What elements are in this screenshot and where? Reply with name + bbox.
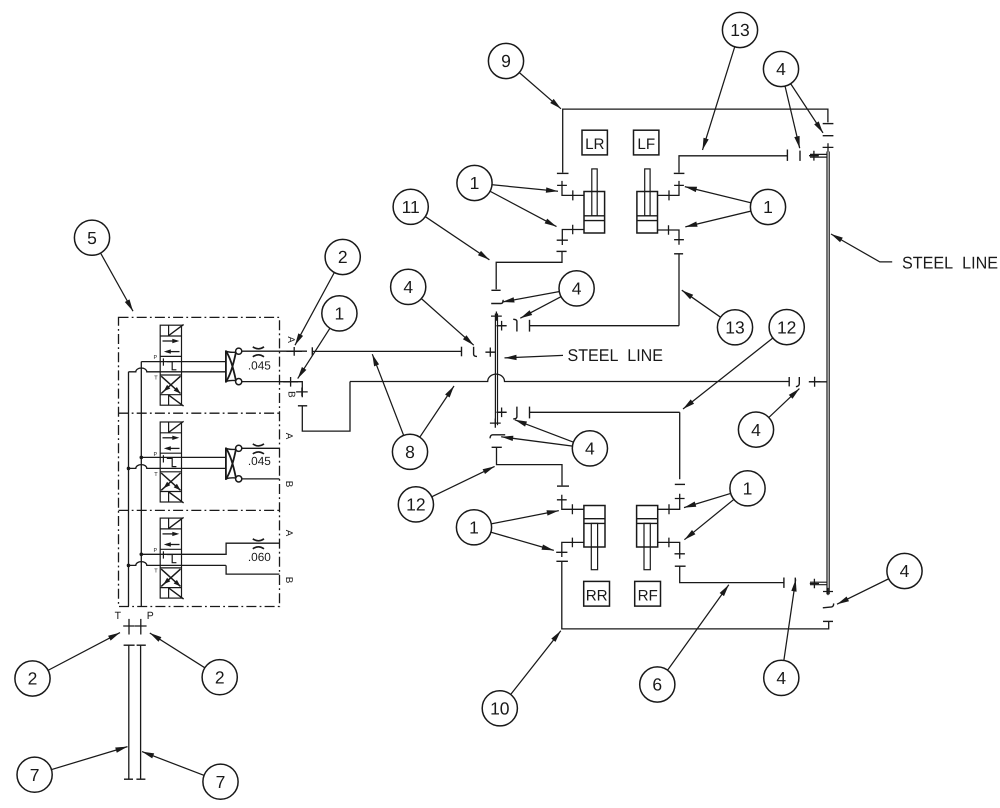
svg-text:4: 4 (751, 420, 761, 440)
coupler half on A1 line (item 4) (474, 347, 477, 357)
balloon 2 (P stub) (202, 660, 237, 695)
balloon 12 (RR tube elbow) (398, 487, 433, 522)
leader 2 (A1 fitting) (295, 257, 343, 345)
svg-text:4: 4 (776, 668, 786, 688)
svg-text:T: T (154, 568, 158, 574)
coupler cap bottom right (item 4) (823, 620, 833, 622)
leader 1 right of RF (684, 488, 748, 507)
fitting right steel line mid (809, 377, 821, 387)
svg-text:7: 7 (30, 765, 40, 785)
leader 5 (valve block) (92, 238, 133, 312)
leader 12 (RF hose corner) (683, 327, 787, 409)
sleeve into right steel line top (810, 153, 827, 155)
fitting bottom of right steel line (823, 588, 833, 595)
leader 4 centre bottom couplers (501, 437, 590, 449)
svg-text:A: A (285, 336, 296, 343)
RR bottom port coupling (item 1) (562, 542, 584, 557)
P bus vertical (140, 362, 142, 607)
junction P section 2 (140, 456, 144, 460)
label box RR (584, 581, 610, 606)
leader 8 (steel lines) (372, 354, 410, 452)
end bar RF-bottom hose (783, 578, 785, 588)
hose LF top to right steel line (item 13) (679, 156, 787, 173)
svg-text:4: 4 (900, 561, 910, 581)
coupler cap below centre line (item 4) (492, 446, 502, 448)
leader 12 (RR tube elbow) (416, 466, 495, 504)
coupler cap LF bottom (item 4) (674, 253, 683, 255)
label box LF (634, 130, 659, 155)
fitting on A1 port (item 2) (286, 347, 302, 356)
svg-text:12: 12 (777, 317, 796, 337)
svg-text:.045: .045 (248, 358, 271, 372)
centre steel line (double) (494, 314, 496, 426)
end bar A1 line (461, 347, 463, 357)
svg-text:2: 2 (338, 247, 348, 267)
svg-text:2: 2 (28, 669, 38, 689)
section 3 T line with hop over P bus (129, 562, 226, 566)
hose 7 left (T) (124, 644, 135, 646)
svg-text:RR: RR (586, 587, 608, 604)
svg-text:4: 4 (585, 439, 595, 459)
leader 13 bottom (LF hose) (682, 290, 735, 327)
cylinder RR (584, 506, 605, 570)
svg-text:13: 13 (730, 20, 749, 40)
section 1 A line (242, 350, 280, 352)
end bar main line at right steel line (788, 377, 790, 386)
leader 13 top (703, 30, 741, 150)
balloon 4 top right (763, 51, 798, 86)
valve block section separator 2 (119, 509, 280, 511)
LF bottom port coupling (item 1) (658, 230, 680, 245)
T port stub fitting (128, 619, 130, 635)
leader 7 left (35, 747, 128, 775)
coupler cap left rail drop (item 4) (557, 172, 569, 174)
orifice .060 section 3 (253, 539, 264, 541)
leader 1 right of LF (685, 207, 768, 227)
coupler cap RR bottom (item 4) (556, 560, 568, 562)
coupler half (item 4) on main line right (796, 377, 799, 387)
leader 1 left of LR (475, 183, 557, 227)
svg-text:B: B (283, 481, 294, 488)
coupler pair right of centre line bottom (item 4) (513, 407, 517, 419)
leader 4 (main line coupler) (756, 389, 799, 430)
open coupler half lower right (item 4) (823, 603, 834, 607)
junction T section 3 (127, 564, 131, 568)
svg-text:RF: RF (638, 587, 658, 604)
balloon 4 (open coupler lower) (887, 553, 922, 588)
hose RF top vertical (item 12) (679, 412, 681, 479)
balloon 4 centre top couplers (559, 271, 594, 306)
leader 4 (open coupler lower) (837, 571, 905, 604)
tick on A1 steel line (311, 347, 313, 355)
hose 7 right (P) (137, 644, 146, 646)
steel tube LR bottom to centre (item 11) (496, 252, 562, 290)
orifice .045 section 2 (253, 444, 264, 446)
svg-text:4: 4 (572, 279, 582, 299)
svg-text:13: 13 (725, 318, 744, 338)
section 3 P line (141, 553, 226, 555)
fitting right steel line top (809, 151, 819, 161)
fitting right steel line bottom (810, 579, 819, 589)
hose LF bottom down to centre coupler (item 13) (678, 254, 680, 326)
coupler cap on B1 (item 4) (298, 405, 307, 407)
svg-text:.060: .060 (248, 550, 271, 564)
leader 1 (B1 fitting) (298, 313, 340, 378)
hose RF bottom east (item 6) (680, 566, 784, 582)
coupler half bar lower right (item 4) (794, 578, 796, 588)
svg-text:10: 10 (490, 699, 510, 719)
LF top port coupling (item 1) (658, 181, 680, 196)
svg-text:8: 8 (405, 442, 415, 462)
right steel line (double) (826, 152, 828, 595)
svg-text:1: 1 (743, 479, 753, 499)
B1 port elbow (280, 382, 303, 398)
T bus vertical (128, 372, 130, 607)
svg-text:1: 1 (469, 518, 479, 538)
svg-text:6: 6 (652, 675, 662, 695)
svg-text:LR: LR (585, 136, 604, 153)
fitting on B1 elbow (296, 388, 308, 397)
coupler pair right of centre line top (item 4) (513, 319, 517, 331)
svg-text:1: 1 (763, 197, 773, 217)
svg-text:11: 11 (402, 197, 420, 217)
coupler cap RF top (item 4) (675, 483, 685, 485)
RR top port coupling (item 1) (562, 495, 584, 510)
leader 1 left of RR (474, 511, 559, 528)
svg-text:STEEL LINE: STEEL LINE (902, 254, 998, 273)
svg-text:1: 1 (335, 304, 345, 324)
svg-text:T: T (115, 610, 122, 622)
leader 4 (lower coupler bar) (781, 579, 795, 678)
fitting top of centre steel line (491, 312, 502, 321)
valve spool section 3 (160, 517, 183, 599)
LR top port coupling (item 1) (562, 181, 584, 196)
RF top port coupling (item 1) (658, 494, 680, 510)
leader 4 centre bottom couplers (515, 420, 590, 449)
leader 4 top right (781, 69, 823, 133)
fitting bottom of centre steel line (490, 419, 501, 428)
leader 1 left of RR (474, 527, 554, 550)
steel line item 8 (A1 to center) (312, 350, 461, 352)
fitting into centre steel line left (item 1) (485, 348, 495, 357)
fitting on B1 port (item 1) (283, 377, 298, 387)
svg-text:5: 5 (87, 228, 97, 248)
leader 4 centre top couplers (520, 288, 576, 318)
svg-text:.045: .045 (248, 454, 271, 468)
coupler cap RR top (item 4) (557, 485, 569, 487)
B1 hose to main steel line (302, 382, 350, 432)
P port stub fitting (140, 619, 142, 635)
section 1 check valve crossover (225, 350, 227, 382)
svg-text:T: T (154, 375, 158, 381)
svg-text:B: B (283, 577, 294, 584)
section 2 check valve crossover (225, 448, 227, 480)
end bar LF-top hose (786, 150, 788, 161)
label box LR (582, 130, 607, 155)
coupler cap above centre line (item 4) (491, 289, 500, 291)
junction T section 2 (127, 467, 131, 471)
fitting centre line to LF-bottom hose (497, 321, 507, 331)
leader 4 (A1 coupler) (408, 287, 474, 345)
section 3 B line with step down (226, 565, 279, 574)
svg-text:A: A (283, 433, 294, 440)
balloon 1 left of LR (457, 165, 492, 200)
section 1 T line with hop over P bus (129, 368, 226, 372)
leader 7 right (142, 752, 221, 782)
RF bottom port coupling (item 1) (658, 542, 680, 558)
leader 4 top right (781, 69, 800, 148)
fitting centre line to RF-top hose (497, 408, 507, 418)
leader 1 right of LF (685, 187, 768, 207)
balloon 13 top (722, 12, 757, 47)
leader 8 (steel lines) (410, 386, 454, 452)
svg-text:4: 4 (776, 59, 786, 79)
steel tube centre to RR top (item 12) (497, 448, 563, 486)
section 2 P line (141, 456, 226, 458)
section 2 B line (242, 478, 280, 480)
svg-text:12: 12 (406, 495, 425, 515)
leader 4 centre top couplers (502, 288, 576, 302)
balloon 12 (RF hose corner) (769, 310, 804, 345)
svg-text:T: T (154, 472, 158, 478)
section 1 P line (141, 361, 226, 363)
leader 11 (411, 207, 490, 260)
balloon 1 right of RF (730, 471, 765, 506)
top rail hose (item 9) (563, 109, 828, 173)
A1 stub (280, 350, 308, 352)
svg-text:7: 7 (216, 772, 226, 792)
balloon 4 (lower coupler bar) (764, 660, 799, 695)
cylinder LF (637, 169, 658, 233)
section 3 A line with step and orifice (226, 543, 280, 554)
balloon 7 left (17, 757, 52, 792)
balloon 1 left of RR (456, 510, 491, 545)
leader 2 (P stub) (150, 633, 220, 677)
balloon 10 (bottom rail hose) (482, 691, 517, 726)
section 2 T line with hop over P bus (129, 465, 226, 469)
coupler cap right rail drop (item 4) (823, 123, 834, 125)
cylinder LR (584, 169, 605, 233)
junction P section 3 (140, 553, 144, 557)
balloon 1 (B1 fitting) (322, 296, 357, 331)
leader 1 right of RF (684, 488, 747, 539)
hose RR bottom to bottom rail (item 10) (562, 562, 829, 629)
balloon 5 (valve block) (74, 220, 109, 255)
coupler cap RF bottom (item 4) (675, 565, 686, 567)
leader 2 (T stub) (33, 633, 121, 679)
orifice .045 section 1 (253, 347, 264, 349)
balloon 7 right (203, 764, 238, 799)
coupler cap on right steel line top (item 4) (823, 135, 834, 137)
balloon 4 (main line coupler) (738, 412, 773, 447)
label box RF (635, 581, 661, 606)
coupler cap LR bottom (item 4) (557, 250, 567, 252)
svg-text:P: P (154, 548, 158, 554)
svg-text:4: 4 (403, 277, 413, 297)
balloon 4 (A1 coupler) (391, 269, 426, 304)
balloon 4 centre bottom couplers (572, 431, 607, 466)
balloon 9 (top rail hose) (488, 43, 523, 78)
section 2 A line (242, 447, 280, 449)
balloon 6 (RF bottom hose) (640, 667, 675, 702)
main steel line (item 8) B1 east run with hop over centre line (350, 374, 789, 381)
cylinder RF (637, 506, 658, 570)
svg-text:1: 1 (470, 173, 480, 193)
valve spool section 1 (160, 325, 183, 407)
open coupler half below centre line (item 4) (490, 435, 505, 439)
sleeve into right steel line bottom (810, 581, 827, 583)
leader 1 left of LR (475, 183, 559, 191)
hose RF top horizontal (item 12) (530, 411, 680, 413)
leader 9 (top rail hose) (506, 61, 561, 109)
svg-text:P: P (154, 355, 158, 361)
open coupler half above centre line (item 4) (491, 300, 503, 304)
balloon 11 (393, 189, 428, 224)
LR bottom port coupling (item 1) (562, 230, 584, 246)
leader 6 (RF bottom hose) (657, 585, 729, 685)
coupler cap LF top (item 4) (674, 172, 685, 174)
balloon 2 (A1 fitting) (325, 239, 360, 274)
valve spool section 2 (160, 421, 183, 503)
valve block section separator 1 (119, 412, 280, 414)
balloon 8 (steel lines) (392, 434, 427, 469)
hose LF bottom horizontal (item 13) (530, 325, 680, 327)
section 1 B line (242, 381, 280, 383)
valve block boundary (item 5) dash-dot box (119, 317, 280, 606)
fitting top of right steel line (823, 143, 834, 151)
svg-text:2: 2 (215, 667, 225, 687)
balloon 13 bottom (LF hose) (717, 310, 752, 345)
balloon 1 right of LF (750, 189, 785, 224)
balloon 2 (T stub) (15, 661, 50, 696)
svg-text:LF: LF (637, 136, 655, 153)
leader 10 (bottom rail hose) (500, 631, 561, 709)
svg-text:9: 9 (501, 51, 511, 71)
svg-text:STEEL LINE: STEEL LINE (568, 346, 664, 365)
svg-text:A: A (283, 530, 294, 537)
svg-text:B: B (285, 391, 296, 398)
svg-text:P: P (147, 610, 154, 622)
coupler half bar (item 4) right of LF hose (799, 151, 801, 161)
